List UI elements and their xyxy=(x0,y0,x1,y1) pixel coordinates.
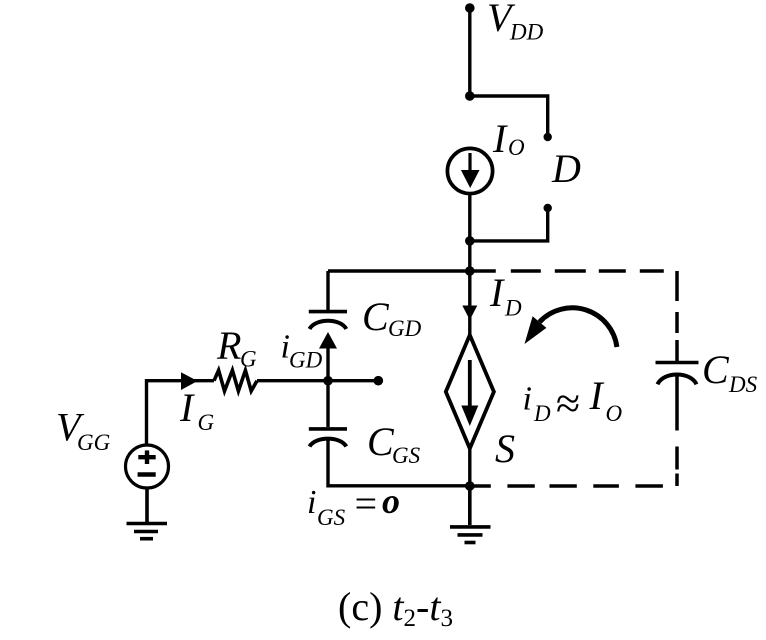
svg-text:(c) t2-t3: (c) t2-t3 xyxy=(338,584,453,632)
node: source junction xyxy=(465,481,475,491)
svg-text:G: G xyxy=(240,347,257,372)
wire: VDD vertical drop xyxy=(468,8,471,96)
wire: dashed box right edge lower xyxy=(675,375,679,487)
wire: VGG up and right to resistor xyxy=(147,381,215,445)
wire: switch D bottom to drain xyxy=(470,212,548,241)
ground: V_GG ground xyxy=(127,488,168,539)
arrow: i_GD direction (up) xyxy=(319,332,337,381)
label C_DS xyxy=(702,347,758,397)
wire: box node down to diamond xyxy=(468,271,471,336)
svg-text:R: R xyxy=(216,323,241,368)
wire: gate junction down to C_GS xyxy=(326,381,329,427)
wire: gate branch top corner down to C_GD xyxy=(326,271,329,310)
resistor R_G zigzag xyxy=(214,370,257,391)
svg-text:GD: GD xyxy=(388,316,422,341)
svg-text:GG: GG xyxy=(77,430,111,455)
node: D node at box top xyxy=(465,266,475,276)
label V_GG xyxy=(56,405,111,456)
dependent current source (diamond) xyxy=(446,335,494,449)
label I_G xyxy=(179,385,215,435)
svg-text:C: C xyxy=(702,347,730,392)
svg-text:C: C xyxy=(367,419,395,464)
node: VDD terminal xyxy=(465,3,475,13)
svg-text:GS: GS xyxy=(317,505,346,530)
svg-text:D: D xyxy=(533,401,551,426)
label R_G xyxy=(216,323,257,372)
caption (c) t2-t3 xyxy=(338,584,453,632)
svg-text:O: O xyxy=(508,135,525,160)
svg-text:o: o xyxy=(382,481,400,521)
arrow: I_D direction on drain wire xyxy=(462,306,477,321)
label V_DD xyxy=(487,0,544,45)
wire: dashed box top edge xyxy=(470,269,677,273)
node: switch D bottom contact xyxy=(544,204,552,212)
wire: junction to switch D top xyxy=(470,96,548,133)
label I_D xyxy=(489,270,522,321)
label C_GD xyxy=(362,294,422,341)
label i_GD xyxy=(281,329,323,373)
wire: down to box-top node xyxy=(468,241,471,271)
wire: C_GS bottom lead and bottom rail to source node xyxy=(328,440,470,486)
capacitor C_GS xyxy=(309,429,347,447)
svg-text:I: I xyxy=(589,373,605,418)
arrow: I_G direction (right) xyxy=(181,372,198,390)
svg-text:C: C xyxy=(362,294,390,339)
node: switch D top contact xyxy=(544,133,552,141)
svg-text:GS: GS xyxy=(392,443,421,468)
label S (source terminal) xyxy=(495,426,515,471)
capacitor C_GD xyxy=(309,312,347,329)
voltage source V_GG xyxy=(126,445,169,488)
wire: dashed box bottom edge xyxy=(470,484,677,488)
svg-text:≈: ≈ xyxy=(556,379,580,428)
label C_GS xyxy=(367,419,421,468)
svg-text:I: I xyxy=(489,270,505,315)
curved arrow (loop direction) xyxy=(525,308,617,347)
node: drain top junction xyxy=(465,91,475,101)
svg-text:i: i xyxy=(523,380,532,417)
ground: source ground xyxy=(450,486,491,543)
wire: box top solid segment to gate branch xyxy=(328,269,470,272)
svg-text:=: = xyxy=(352,481,379,526)
label D (switch) xyxy=(551,146,581,191)
node: gate junction xyxy=(323,376,333,386)
svg-text:GD: GD xyxy=(289,348,323,373)
label i_GS = o xyxy=(307,481,400,530)
svg-text:i: i xyxy=(307,484,316,521)
node: gate stub end dot xyxy=(374,376,384,386)
svg-text:I: I xyxy=(492,116,508,161)
svg-text:S: S xyxy=(495,426,515,471)
wire: resistor to gate junction xyxy=(257,379,328,382)
wire: diamond bottom to source node xyxy=(468,449,471,487)
label I_O xyxy=(492,116,525,161)
svg-text:D: D xyxy=(504,296,522,321)
current source I_O xyxy=(447,148,492,193)
svg-text:DD: DD xyxy=(509,20,544,45)
wire: dashed box right edge upper xyxy=(675,271,679,363)
label i_D approx I_O xyxy=(523,373,623,428)
svg-text:D: D xyxy=(551,146,581,191)
svg-text:O: O xyxy=(606,401,623,426)
capacitor C_DS xyxy=(656,363,699,385)
svg-text:DS: DS xyxy=(728,372,758,397)
svg-text:G: G xyxy=(198,410,215,435)
wire: current source to lower junction xyxy=(468,194,471,241)
svg-text:I: I xyxy=(179,385,195,430)
node: drain lower junction xyxy=(465,236,475,246)
wire: gate stub to open end xyxy=(328,379,378,382)
